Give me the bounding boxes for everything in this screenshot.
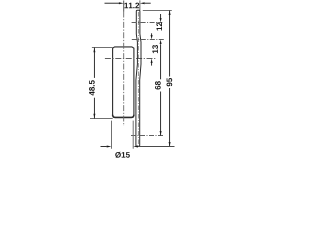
cylinder vertical centerline top solid part (11.2 extension): [123, 1, 125, 12]
diameter 15 text: [115, 152, 130, 158]
dimension 68 line with shared top arrow: [160, 40, 162, 136]
dimension 48.5 top extension line: [92, 47, 113, 49]
dimension 95 text: [167, 78, 173, 86]
dimension 12 top outside arrow: [160, 14, 162, 23]
dimension 13 top outside arrow: [151, 33, 153, 39]
diameter 15 right arrow and bottom shared extension line: [133, 146, 174, 148]
dimension 13 bottom outside arrow: [151, 59, 153, 66]
plate (edge view, cranked strip): [136, 10, 141, 146]
dimension 68 text: [155, 81, 161, 89]
plate vertical centerline: [137, 12, 139, 144]
dimension 11.2 right extension line (plate edge extended): [139, 0, 141, 10]
diameter 15 left arrow: [101, 146, 112, 148]
cylinder body outline: [113, 47, 134, 118]
dimension 11.2 text: [124, 3, 139, 9]
dimension 48.5 bottom extension line: [90, 118, 113, 120]
dimension 11.2 right arrow: [140, 2, 151, 4]
hole 3 centerline: [131, 135, 164, 137]
diameter 15 left extension line: [111, 121, 113, 149]
hole 2 centerline: [132, 39, 166, 41]
dimension 13 text: [152, 45, 158, 53]
dimension 12 text: [156, 22, 162, 30]
hole 1 centerline: [132, 22, 163, 24]
top extension line at plate top: [143, 10, 172, 12]
diameter 15 right extension line: [132, 121, 134, 149]
pivot axis horizontal centerline: [105, 58, 157, 60]
dimension 48.5 text: [89, 80, 95, 95]
dimension 11.2 left arrow: [105, 2, 124, 4]
dimension 48.5 line and arrows: [93, 48, 95, 119]
cylinder vertical centerline: [123, 12, 125, 127]
dimension 95 line and arrows: [169, 11, 171, 147]
